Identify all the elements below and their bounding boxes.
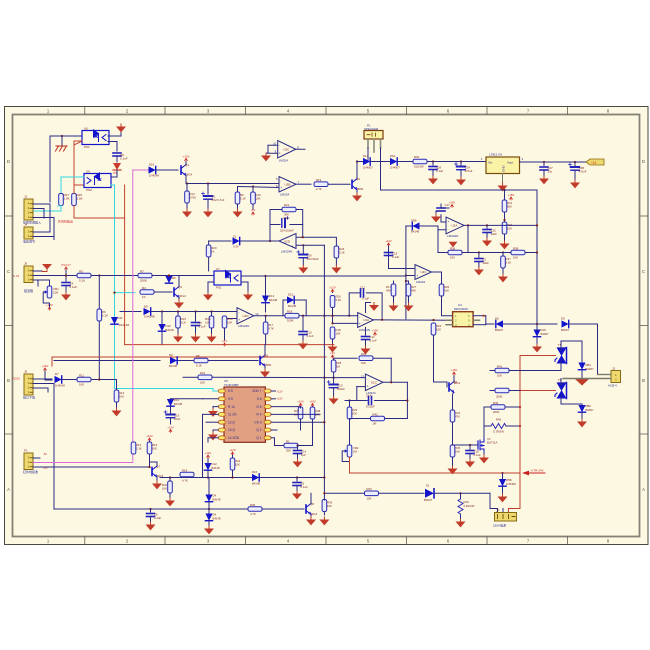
connector J1 remote input — [23, 195, 41, 225]
ground below DB2 — [577, 419, 587, 427]
wire C16 to ground — [302, 258, 304, 265]
resistor R31 20K — [502, 200, 507, 212]
svg-text:12 Q: 12 Q — [228, 420, 235, 424]
ground at U1A power — [369, 303, 379, 311]
svg-text:200K: 200K — [496, 395, 503, 399]
svg-text:+: + — [359, 322, 361, 326]
diode D8 1N4007 — [496, 320, 503, 327]
wire magenta into D16 — [133, 169, 149, 171]
junction R31/R32 — [503, 219, 505, 221]
junction x324 pin3 — [323, 421, 325, 423]
diode D17 1N4007 — [363, 158, 370, 165]
wire J6 pin1 — [33, 388, 48, 392]
wire R38 to x537 — [525, 252, 537, 254]
svg-text:R8: R8 — [196, 354, 200, 358]
wire R21 right down — [296, 210, 303, 238]
svg-text:10K: 10K — [450, 256, 455, 260]
svg-text:D12: D12 — [288, 293, 294, 297]
power flag ITF4 — [61, 263, 71, 270]
regulator U9 L7812 — [481, 153, 524, 174]
wire R23 to ground — [335, 258, 337, 265]
wire to C2A — [460, 162, 462, 166]
wire to D17 — [357, 161, 363, 163]
wire U5 pin2 stub — [271, 429, 277, 431]
module B1 speaker — [364, 124, 383, 140]
svg-text:Q 2: Q 2 — [256, 428, 261, 432]
resistor R14 270K — [185, 191, 190, 203]
ground below C6 — [146, 522, 156, 530]
junction C2B — [574, 161, 576, 163]
wire C17 to ground — [436, 211, 441, 214]
ground below C5 — [203, 209, 213, 217]
svg-text:8550: 8550 — [357, 187, 364, 191]
wire left of D6 — [120, 311, 141, 313]
wire red vertical right — [519, 356, 521, 506]
wire red gate T6 — [520, 390, 556, 392]
svg-text:JP: JP — [496, 509, 500, 513]
resistor R25 1.5K — [72, 194, 77, 206]
wire U5 pin10 stub — [213, 406, 218, 408]
svg-text:220V电源: 220V电源 — [493, 523, 506, 528]
wire C2C ground — [486, 233, 488, 239]
wire D12B to row — [207, 471, 209, 478]
svg-text:C1A: C1A — [366, 394, 372, 398]
wire cyan PS2 anode — [61, 176, 84, 178]
svg-text:10K: 10K — [367, 496, 372, 500]
svg-text:+12V: +12V — [205, 451, 212, 455]
power port +12V tag — [586, 159, 604, 165]
svg-text:D16: D16 — [252, 470, 258, 474]
resistor R12 5.1K — [131, 442, 136, 454]
wire U4 pin3 stub — [446, 324, 453, 326]
svg-text:10K: 10K — [119, 395, 124, 399]
power +12V at R16C — [146, 434, 153, 441]
connector J5 — [24, 262, 33, 283]
svg-text:B: B — [642, 378, 645, 383]
svg-text:-: - — [292, 237, 293, 241]
svg-text:U2D: U2D — [284, 239, 291, 243]
wire red above R25 — [73, 187, 75, 194]
wire R45 to red net — [505, 406, 520, 408]
capacitor C9 0.1uF — [293, 483, 301, 486]
capacitor C14 1uF — [294, 451, 302, 454]
wire U4 pin4 — [473, 324, 486, 326]
svg-text:+12V: +12V — [42, 364, 49, 368]
svg-text:0.1uF: 0.1uF — [199, 325, 206, 329]
wire D14 to C15 — [170, 407, 172, 414]
connector J2 ACB-V — [608, 367, 621, 388]
junction R31 top — [503, 189, 505, 191]
resistor R8 5.1K — [194, 358, 208, 363]
wire C5 ground — [207, 199, 209, 209]
wire U5 pin4 row — [271, 413, 320, 415]
junction x537 out — [536, 224, 538, 226]
wire diode to PS2 pin4 — [111, 170, 117, 177]
svg-text:R22: R22 — [200, 371, 206, 375]
op-amp U1A LM324N — [358, 313, 374, 332]
svg-text:0.22uF: 0.22uF — [366, 405, 375, 409]
wire red vertical long bus — [124, 185, 126, 345]
svg-text:+12: +12 — [591, 161, 597, 165]
svg-text:+: + — [367, 384, 369, 388]
transistor Q8 9014 — [306, 502, 314, 515]
svg-text:A: A — [642, 487, 645, 492]
wire T5 row left — [490, 370, 561, 372]
resistor R24 10K — [431, 323, 436, 335]
svg-text:D1: D1 — [426, 484, 430, 488]
wire C11 loop left — [349, 293, 360, 316]
wire red stub to PS2 pin3 — [74, 184, 84, 186]
svg-text:GND: GND — [502, 165, 506, 173]
ground at U3C — [261, 153, 271, 161]
svg-text:1N4148: 1N4148 — [55, 384, 65, 388]
resistor R34 47K — [450, 410, 455, 422]
svg-text:Z1: Z1 — [233, 235, 237, 239]
resistor R36 10K — [448, 250, 462, 255]
junction D5 top — [168, 274, 170, 276]
svg-text:10K: 10K — [327, 504, 332, 508]
ground below Q7 — [152, 481, 162, 489]
wire to R27b — [406, 281, 409, 284]
power +12V at R26E — [329, 285, 336, 292]
wire U2D minus input to R23 — [296, 237, 336, 246]
wire earth stem — [61, 136, 63, 146]
wire J1 pin4 — [33, 203, 50, 205]
wire speaker pin1 gray — [367, 139, 369, 148]
wire red to connector — [509, 505, 521, 513]
wire C7 to ground — [195, 326, 197, 335]
svg-text:5.1K: 5.1K — [336, 298, 342, 302]
svg-text:25V/100uF: 25V/100uF — [280, 229, 294, 233]
junction gate node — [451, 444, 453, 446]
connector J4 voltage adjust — [23, 223, 35, 244]
wire U1D plus input — [225, 318, 238, 320]
svg-text:14 VDD: 14 VDD — [228, 436, 240, 440]
earth ground — [56, 146, 68, 151]
ground at J5 — [42, 264, 52, 270]
capacitor C26 0.1uF — [429, 167, 437, 170]
svg-text:200K: 200K — [140, 279, 147, 283]
wire to D5B — [502, 473, 504, 480]
wire Q8 emitter — [310, 515, 312, 518]
ground below R27 — [404, 303, 414, 311]
zener Z1 3.3V — [233, 237, 240, 244]
power +15V rail b — [309, 399, 316, 406]
svg-text:10K: 10K — [497, 374, 502, 378]
wire C17 to U2A plus — [441, 215, 446, 222]
optocoupler U7 — [214, 267, 241, 290]
svg-text:51K: 51K — [361, 361, 366, 365]
diode D6 1N4148 — [144, 308, 151, 315]
wire D18 ground — [536, 337, 538, 344]
svg-text:U5: U5 — [86, 169, 90, 173]
svg-text:J5: J5 — [24, 262, 28, 266]
power -5V below R10 — [251, 208, 256, 215]
wire R42b to pot node — [350, 418, 371, 420]
ground below Q5 — [260, 369, 270, 377]
svg-text:1N4007: 1N4007 — [390, 166, 400, 170]
svg-text:1K: 1K — [211, 250, 215, 254]
ground below R9 — [233, 209, 243, 217]
resistor R26 51K — [439, 284, 444, 296]
wire R42b right — [385, 418, 408, 420]
resistor R16 10K — [209, 316, 214, 328]
svg-text:B4148: B4148 — [269, 298, 278, 302]
wire Q7 emitter — [156, 477, 158, 481]
ground below C27 — [539, 176, 549, 184]
wire feedback left vertical — [269, 225, 271, 242]
svg-text:470uF: 470uF — [579, 170, 587, 174]
ground below C12 — [361, 346, 371, 354]
resistor R30 510/1W — [413, 159, 427, 164]
wire U5 pin1 to R1B — [271, 438, 284, 446]
wire cyan vertical to R27 — [60, 177, 62, 194]
wire R20 to U7 box — [208, 257, 210, 271]
svg-text:43K: 43K — [386, 289, 391, 293]
wire J1 pin4 vertical bus — [49, 136, 51, 202]
wire cyan stub row — [115, 292, 136, 294]
wire down to DB1 — [581, 341, 583, 362]
svg-text:0.1uF: 0.1uF — [392, 255, 399, 259]
wire cap to red diode — [116, 156, 118, 162]
wire pin14 down — [207, 438, 209, 442]
ground below R40B — [165, 498, 175, 506]
wire C9 ground — [296, 486, 298, 492]
svg-text:+: + — [416, 274, 418, 278]
wire to C13 — [270, 224, 280, 226]
resistor R48 10K — [310, 407, 315, 419]
wire R24 chain to Q4B base — [434, 323, 448, 387]
wire Q5 collector to red bus — [264, 345, 266, 355]
wire R34 top to Q4B — [452, 393, 455, 410]
junction C3 — [478, 251, 480, 253]
resistor R20 1K — [206, 245, 211, 257]
wire R44 to red vertical — [509, 390, 520, 392]
power +12V at J6 — [42, 364, 49, 371]
wire red vertical to PS2 — [73, 145, 75, 187]
svg-text:P1: P1 — [24, 449, 28, 453]
transistor Q5 8550 — [260, 354, 268, 367]
svg-text:10K: 10K — [152, 447, 157, 451]
wire to C27 — [543, 162, 545, 166]
inner border — [13, 115, 640, 537]
svg-text:R19: R19 — [316, 178, 322, 182]
junction C11 loop — [348, 315, 350, 317]
svg-text:R33: R33 — [367, 487, 373, 491]
svg-text:J6: J6 — [24, 370, 28, 374]
wire speaker pin1 down — [367, 148, 369, 162]
svg-text:J1: J1 — [24, 195, 28, 199]
ground below R14 — [182, 209, 192, 217]
wire U3B minus row — [238, 187, 280, 188]
svg-text:100K: 100K — [287, 319, 294, 323]
wire zener row left — [209, 240, 231, 242]
resistor R22 10K — [198, 375, 212, 380]
wire to R17c — [265, 316, 267, 322]
wire to C2C — [486, 225, 488, 228]
wire row into U1C — [324, 377, 365, 379]
svg-text:2.7K: 2.7K — [316, 187, 322, 191]
svg-text:0.1uF: 0.1uF — [307, 334, 314, 338]
wire V2 drain up — [484, 426, 491, 437]
junction C5 top — [207, 182, 209, 184]
wire to C9 — [296, 478, 298, 482]
wire PS1 collector to ground — [108, 127, 121, 137]
svg-text:0.1uF: 0.1uF — [301, 485, 308, 489]
resistor R13B 10K — [114, 390, 119, 402]
wire to R40 — [460, 493, 462, 499]
diode D5 vertical at bus — [165, 276, 172, 283]
ground above R36 row — [452, 250, 454, 253]
svg-text:10K: 10K — [200, 380, 205, 384]
wire to Q4 base — [328, 183, 350, 185]
wire C2A ground — [460, 170, 462, 177]
junction R27b — [405, 280, 407, 282]
wire D13 from U7 row — [265, 276, 267, 296]
resistor R21 30K — [282, 207, 296, 212]
wire R31 to R32 — [504, 212, 506, 222]
wire speaker pin3 down — [380, 148, 382, 190]
svg-text:PS2: PS2 — [86, 188, 92, 192]
wire to D18 — [536, 324, 538, 330]
wire R22 right to U1C row — [212, 376, 324, 378]
wire to C14 — [297, 446, 299, 450]
ground below V2 — [479, 455, 489, 463]
svg-text:B4148: B4148 — [411, 230, 420, 234]
wire R10 bottom — [252, 204, 254, 209]
svg-text:D6B: D6B — [411, 219, 417, 223]
svg-text:1.5K: 1.5K — [64, 197, 70, 201]
svg-text:D2: D2 — [119, 316, 123, 320]
svg-text:U1C: U1C — [371, 381, 378, 385]
svg-text:LM324: LM324 — [416, 280, 426, 284]
junction long vertical busA — [323, 315, 325, 317]
svg-text:B4148: B4148 — [213, 517, 222, 521]
svg-text:B4148: B4148 — [288, 304, 297, 308]
wire to D8 — [486, 323, 494, 325]
svg-text:51K: 51K — [181, 321, 186, 325]
resistor R42 1M — [371, 416, 385, 421]
junction red R45 — [519, 406, 521, 408]
svg-text:20K: 20K — [286, 449, 291, 453]
svg-text:Q 1: Q 1 — [256, 436, 261, 440]
mosfet V2 BUT11A — [478, 437, 497, 452]
wire U5 pin11 — [203, 413, 219, 415]
wire C18 ground — [469, 454, 471, 460]
junction R37 top — [502, 251, 504, 253]
wire cyan long vertical from PS2 — [111, 185, 115, 389]
svg-text:J4: J4 — [24, 223, 28, 227]
capacitor C5 50V/4.7uF — [202, 192, 213, 199]
svg-text:47K: 47K — [455, 415, 460, 419]
wire to D6B — [406, 225, 411, 227]
op-amp U3B LM324 — [276, 177, 300, 197]
resistor R33 10K — [365, 491, 379, 496]
svg-text:U2C: U2C — [421, 270, 428, 274]
ground below Q8 — [306, 517, 316, 525]
svg-text:13 Q: 13 Q — [228, 428, 235, 432]
junction D12B — [207, 476, 209, 478]
capacitor C10 0.1uF — [299, 332, 307, 335]
diode D10 1N4148 vertical — [158, 324, 165, 331]
wire Q4 collector to top row — [356, 162, 358, 179]
capacitor C16 50V/10uF — [297, 251, 308, 258]
capacitor C13 25V/100uF — [282, 217, 289, 228]
resistor R41 10K — [495, 368, 509, 373]
ground below Q4 — [352, 193, 362, 201]
svg-text:+12V: +12V — [329, 285, 336, 289]
ground below C1D — [329, 396, 339, 404]
power +15V at C17 — [449, 200, 456, 207]
wire R16C bottom — [149, 454, 151, 467]
wire U5 pin3 to x324 — [271, 421, 324, 423]
capacitor C8 0.1uF — [113, 153, 121, 156]
svg-text:5.1K: 5.1K — [102, 314, 108, 318]
svg-text:B4007: B4007 — [541, 332, 550, 336]
svg-text:+5V: +5V — [222, 339, 227, 343]
svg-text:10K: 10K — [235, 463, 240, 467]
transistor Q2 9014 — [174, 285, 182, 298]
wire Q4B collector — [453, 375, 455, 382]
wire x324 to R45B — [323, 499, 325, 502]
wire down to C4 — [65, 270, 67, 281]
wire +12V stub — [332, 292, 334, 294]
svg-text:4.7K: 4.7K — [250, 512, 256, 516]
wire to R40B — [169, 478, 171, 482]
svg-text:0.1R/2W: 0.1R/2W — [493, 430, 504, 434]
wire pin13 down — [212, 430, 214, 432]
svg-text:510/1W: 510/1W — [414, 165, 424, 169]
svg-text:B4007: B4007 — [586, 367, 595, 371]
svg-text:B: B — [7, 378, 10, 383]
junction loop at input — [302, 236, 304, 238]
ground below R23 — [331, 265, 341, 273]
svg-text:50V/4.7uF: 50V/4.7uF — [212, 198, 225, 202]
wire U2C input2 — [406, 275, 415, 277]
svg-text:+15V: +15V — [309, 399, 316, 403]
wire D12 bypass left — [283, 300, 287, 316]
wire J1 pin3 — [33, 209, 44, 219]
resistor R37 5.1K — [501, 256, 506, 268]
svg-text:U6: U6 — [84, 126, 88, 130]
wire regulator output — [520, 161, 599, 163]
resistor R27 1.5K — [59, 194, 64, 206]
diode DB2 1N4007 vertical — [578, 405, 585, 412]
power +12V at VR1 — [46, 303, 53, 310]
svg-text:8550: 8550 — [265, 363, 272, 367]
svg-text:B4007: B4007 — [561, 328, 570, 332]
wire into D14 — [170, 398, 172, 401]
wire U4 pin5 stub — [473, 319, 480, 321]
wire row493 to connector — [490, 493, 498, 512]
wire P1 pin1 row to Q7 — [33, 466, 150, 468]
svg-text:BUT11A: BUT11A — [487, 441, 497, 445]
wire row D9 left — [54, 360, 160, 362]
svg-text:D17: D17 — [363, 154, 369, 158]
wire red stub into PS1 — [74, 140, 82, 142]
svg-text:20K: 20K — [507, 205, 512, 209]
capacitor C27 10uF — [540, 167, 548, 170]
capacitor C2B 470uF — [569, 163, 580, 170]
wire C1D ground — [333, 388, 335, 396]
power +5V below R13 — [222, 339, 227, 346]
svg-text:B4148: B4148 — [166, 328, 175, 332]
ground below C2C — [482, 238, 492, 246]
svg-text:R38: R38 — [513, 246, 519, 250]
svg-text:B4148: B4148 — [213, 498, 222, 502]
ground below C2A — [456, 177, 466, 185]
svg-text:L7812 U9: L7812 U9 — [489, 153, 502, 157]
